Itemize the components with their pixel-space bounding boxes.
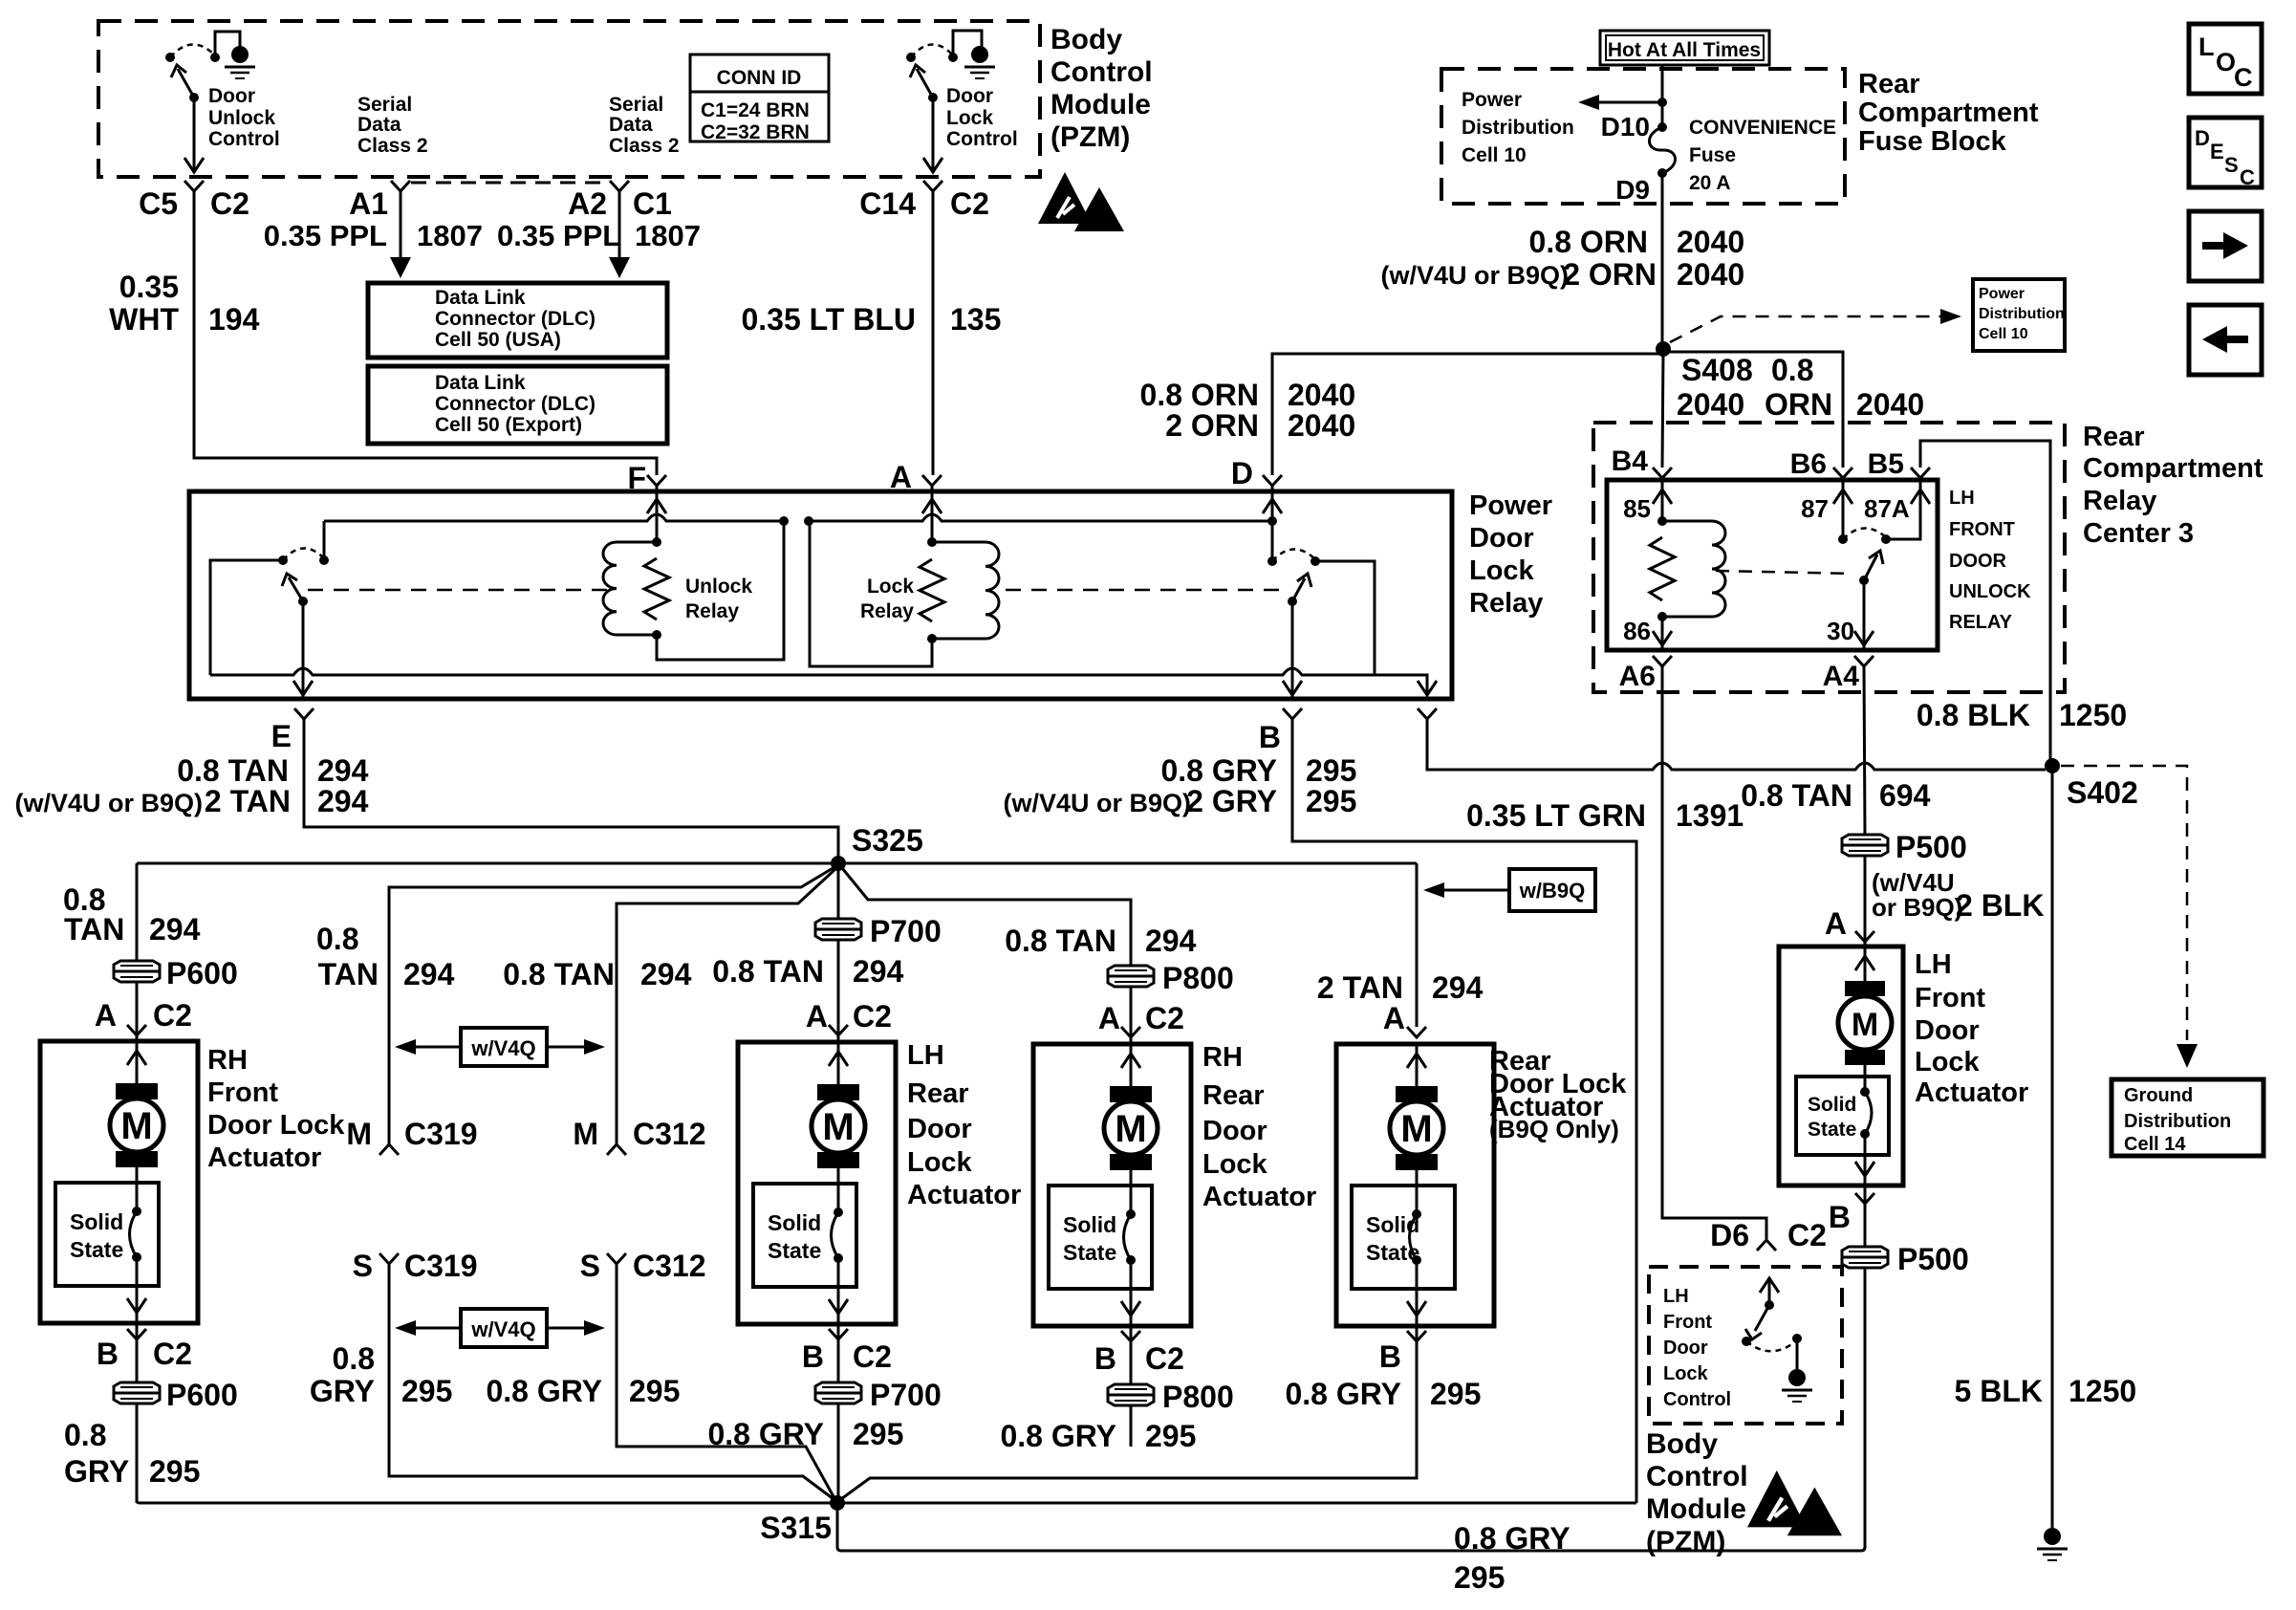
switch relay-right: [1267, 521, 1375, 675]
w/V4Q box (S): [395, 1309, 605, 1347]
LH Rear Door Lock Actuator: [738, 1042, 896, 1324]
svg-text:0.8 TAN: 0.8 TAN: [712, 954, 824, 989]
label 135: [950, 302, 1001, 337]
svg-text:P500: P500: [1895, 830, 1967, 864]
svg-text:2040: 2040: [1677, 257, 1744, 292]
svg-text:L: L: [2199, 33, 2215, 61]
LH Front Door Lock Actuator: [1779, 946, 1903, 1186]
wire fuse output to S408: [1661, 173, 1664, 349]
svg-text:0.8 GRY: 0.8 GRY: [707, 1417, 824, 1451]
svg-text:295: 295: [149, 1454, 200, 1489]
connector B (B9Q): [1379, 1331, 1426, 1374]
svg-text:Distribution: Distribution: [1462, 117, 1574, 139]
svg-text:A: A: [890, 460, 912, 494]
Rear Door Lock Actuator (B9Q): [1336, 1044, 1494, 1326]
wire D inside relay: [1263, 486, 1282, 521]
wire P800 to RH rear A: [1130, 988, 1133, 1044]
svg-text:TAN: TAN: [64, 912, 124, 946]
dashed actuation link (K1): [1716, 571, 1852, 574]
svg-text:E: E: [2210, 140, 2224, 163]
connector P700 (B side): [815, 1382, 861, 1403]
svg-text:0.8 TAN: 0.8 TAN: [177, 753, 289, 788]
svg-text:Door: Door: [907, 1114, 972, 1144]
svg-text:S: S: [353, 1249, 373, 1283]
svg-text:294: 294: [640, 957, 692, 991]
label 0.8 TAN 294 (P700): [712, 954, 903, 989]
svg-text:0.35 LT GRN: 0.35 LT GRN: [1466, 798, 1646, 833]
label 30: [1827, 617, 1854, 645]
svg-text:Door: Door: [1469, 523, 1534, 554]
label 0.8 GRY (RH front B): [64, 1418, 129, 1489]
Hot At All Times box: [1600, 31, 1769, 65]
splice S402: [2045, 758, 2060, 773]
wire B to S315: [1292, 719, 1636, 1503]
svg-text:B5: B5: [1868, 448, 1904, 480]
label 0.8 TAN 694: [1741, 778, 1930, 813]
dashed actuation link (lock): [1006, 589, 1285, 592]
label A2: [568, 186, 607, 221]
svg-text:0.8 GRY: 0.8 GRY: [1160, 753, 1277, 788]
label 5 BLK 1250: [1955, 1374, 2137, 1408]
svg-text:87A: 87A: [1864, 494, 1910, 523]
pin F connector: [647, 475, 666, 486]
wire C14 to A (0.35 LT BLU 135): [932, 191, 935, 475]
svg-text:295: 295: [853, 1417, 903, 1451]
label Body Control Module (PZM) top: [1051, 24, 1153, 153]
wire LH rear B to P700: [837, 1324, 840, 1382]
svg-text:Control: Control: [1051, 56, 1153, 88]
label Door Unlock Control: [208, 85, 280, 150]
unlock relay coil: [603, 537, 661, 640]
svg-text:A1: A1: [349, 186, 388, 221]
svg-text:M: M: [120, 1105, 152, 1147]
label 295 (S315 out): [1454, 1560, 1505, 1595]
svg-text:Hot At All Times: Hot At All Times: [1608, 39, 1761, 61]
svg-text:C5: C5: [139, 186, 178, 221]
svg-text:2040: 2040: [1288, 378, 1355, 412]
svg-text:Control: Control: [946, 128, 1018, 150]
label w/V4U 2 TAN 294 (E): [14, 784, 368, 818]
label D9: [1615, 175, 1650, 205]
svg-text:0.8 ORN: 0.8 ORN: [1529, 225, 1648, 259]
wire A inside relay: [922, 486, 942, 542]
svg-text:135: 135: [950, 302, 1001, 337]
svg-text:Class 2: Class 2: [357, 135, 428, 157]
svg-text:295: 295: [1306, 784, 1356, 818]
label 0.8 TAN (RH front): [63, 882, 124, 946]
svg-text:295: 295: [629, 1374, 680, 1408]
svg-text:2 TAN: 2 TAN: [1317, 970, 1403, 1005]
svg-text:Distribution: Distribution: [1979, 306, 2065, 322]
label 294 (RH front): [149, 912, 201, 946]
label D10: [1601, 112, 1650, 141]
label 1807 (A1): [417, 219, 483, 252]
wire E to S325: [304, 719, 838, 857]
splice S315: [830, 1495, 845, 1511]
svg-text:C312: C312: [633, 1117, 706, 1151]
wire relay common to S402: [1427, 719, 2046, 770]
svg-text:295: 295: [1454, 1560, 1505, 1595]
label Lock Relay: [860, 576, 914, 622]
label B (relay): [1259, 720, 1281, 754]
pin B4 connector: [1612, 446, 1672, 478]
svg-text:Body: Body: [1051, 24, 1122, 55]
label 2 TAN 294 (B9Q): [1317, 970, 1484, 1005]
svg-text:M: M: [1400, 1108, 1432, 1150]
label A1: [349, 186, 388, 221]
legend DESC box: [2189, 118, 2262, 189]
svg-text:Door: Door: [1663, 1338, 1708, 1359]
svg-text:C2: C2: [1787, 1218, 1827, 1252]
arrow to power distribution (left): [1578, 95, 1662, 110]
label LH Front Door Lock Actuator: [1915, 949, 2028, 1108]
connector C14/C2 pin: [923, 181, 942, 191]
svg-text:Serial: Serial: [609, 94, 663, 116]
label Door Lock Control: [946, 85, 1018, 150]
svg-text:Solid: Solid: [1063, 1212, 1116, 1237]
svg-text:WHT: WHT: [109, 302, 179, 337]
svg-text:C312: C312: [633, 1249, 706, 1283]
svg-text:Door Lock: Door Lock: [207, 1110, 345, 1141]
svg-text:DOOR: DOOR: [1949, 551, 2007, 572]
wire P700 to LH rear A: [837, 941, 840, 1041]
svg-text:P500: P500: [1897, 1242, 1969, 1276]
svg-text:A: A: [1098, 1001, 1120, 1035]
wire RH front B to P600: [136, 1323, 139, 1382]
wire relay internal top (right segment): [809, 514, 1272, 521]
svg-text:S402: S402: [2067, 775, 2138, 810]
svg-text:Cell 10: Cell 10: [1979, 326, 2028, 342]
svg-text:C2: C2: [853, 999, 892, 1033]
label C2 (BCM): [210, 186, 249, 221]
label 0.8 GRY 295 (LH rear B): [707, 1417, 903, 1451]
label 0.8 TAN 294 (E): [177, 753, 368, 788]
svg-text:294: 294: [853, 954, 904, 989]
wire LH front B to P500: [1864, 1186, 1867, 1249]
connector A (LH front): [1825, 906, 1874, 942]
svg-text:A: A: [95, 998, 117, 1033]
svg-text:RH: RH: [1202, 1042, 1243, 1073]
relay K1 coil (85-86): [1650, 478, 1725, 650]
wire S402 to ground (5 BLK 1250): [2051, 770, 2054, 1528]
wire P800 B to S315: [1130, 1406, 1133, 1447]
svg-text:C2: C2: [210, 186, 249, 221]
connector B C2 (LH rear): [802, 1329, 892, 1374]
svg-text:FRONT: FRONT: [1949, 519, 2015, 540]
svg-text:State: State: [70, 1237, 123, 1262]
Rear Compartment Fuse Block dashed box: [1441, 69, 1845, 204]
connector A1 pin: [391, 181, 410, 191]
LH Front Door Unlock Relay box: [1607, 480, 1938, 650]
connector S C319: [353, 1249, 478, 1283]
svg-text:B: B: [97, 1337, 119, 1371]
svg-text:30: 30: [1827, 617, 1854, 645]
svg-text:2 BLK: 2 BLK: [1956, 888, 2044, 923]
svg-text:P600: P600: [166, 956, 238, 990]
label C1: [633, 186, 672, 221]
svg-text:C319: C319: [404, 1249, 478, 1283]
wire S315 to LH front B: [837, 1264, 1865, 1551]
svg-text:S408: S408: [1681, 353, 1753, 387]
connector P500 (A side): [1842, 835, 1888, 856]
label 0.8 GRY 295 (B9Q B): [1285, 1377, 1481, 1411]
label Unlock Relay: [685, 576, 752, 622]
svg-text:CONN ID: CONN ID: [717, 67, 802, 89]
svg-text:F: F: [627, 461, 646, 495]
svg-text:GRY: GRY: [310, 1374, 375, 1408]
svg-text:C1=24 BRN: C1=24 BRN: [701, 99, 810, 121]
svg-text:C14: C14: [859, 186, 916, 221]
svg-text:C2=32 BRN: C2=32 BRN: [701, 121, 810, 143]
svg-text:Compartment: Compartment: [1858, 98, 2039, 128]
svg-text:Relay: Relay: [2083, 486, 2156, 516]
svg-text:B: B: [1829, 1200, 1851, 1234]
connector A C2 (LH rear): [806, 999, 892, 1035]
svg-text:CONVENIENCE: CONVENIENCE: [1689, 117, 1836, 139]
wire S325 to RH rear: [842, 868, 1131, 966]
label w/V4U 2 ORN 2040: [1380, 257, 1744, 292]
label w/V4U 2 GRY 295 (B): [1003, 784, 1356, 818]
Rear Compartment Relay Center dashed box: [1593, 423, 2065, 692]
svg-text:UNLOCK: UNLOCK: [1949, 581, 2031, 602]
svg-text:0.35 PPL: 0.35 PPL: [497, 219, 620, 252]
label 2040 ORN 2040: [1677, 387, 1924, 422]
svg-text:Door: Door: [208, 85, 255, 107]
svg-text:GRY: GRY: [64, 1454, 129, 1489]
svg-text:0.8 ORN: 0.8 ORN: [1140, 378, 1259, 412]
wire S325 to B9Q actuator A: [1416, 863, 1419, 1027]
pin B6 connector: [1790, 448, 1852, 480]
svg-text:0.8 GRY: 0.8 GRY: [1285, 1377, 1401, 1411]
label P500 (A): [1895, 830, 1967, 864]
svg-text:M: M: [1852, 1007, 1878, 1043]
ground G (bottom right): [2037, 1528, 2068, 1560]
dashed reference to Power Distribution Cell 10: [1670, 309, 1961, 342]
svg-text:Rear: Rear: [907, 1078, 969, 1109]
label Body Control Module (PZM) bottom: [1646, 1428, 1748, 1557]
label P500 (B): [1897, 1242, 1969, 1276]
svg-text:B: B: [1259, 720, 1281, 754]
svg-text:Power: Power: [1469, 490, 1552, 521]
wire lock relay return loop: [810, 521, 932, 666]
svg-text:LH: LH: [907, 1040, 944, 1071]
svg-text:Lock: Lock: [1202, 1149, 1268, 1180]
svg-text:Relay: Relay: [685, 600, 739, 622]
svg-text:Cell 14: Cell 14: [2124, 1134, 2186, 1155]
svg-text:Distribution: Distribution: [2124, 1111, 2231, 1132]
svg-text:1807: 1807: [635, 219, 701, 252]
svg-text:0.8 TAN: 0.8 TAN: [503, 957, 615, 991]
wire unlock relay return loop: [657, 521, 784, 660]
svg-text:Rear: Rear: [1858, 69, 1920, 99]
svg-text:Solid: Solid: [70, 1209, 123, 1234]
wire F inside relay: [647, 486, 666, 542]
label 0.8 ORN 2040 (fuse out): [1529, 225, 1745, 259]
svg-text:LH: LH: [1915, 949, 1952, 980]
svg-text:Lock: Lock: [946, 107, 993, 129]
ESD symbol (BCM top): [1038, 172, 1124, 231]
wire S408 to B6: [1663, 352, 1843, 468]
wire hot feed: [1661, 65, 1664, 127]
svg-text:B: B: [1094, 1341, 1116, 1376]
wire S325 to P700: [837, 863, 840, 918]
svg-text:Cell 50 (Export): Cell 50 (Export): [435, 414, 582, 436]
label 0.8 GRY 295 (RH rear B): [1000, 1419, 1196, 1453]
svg-text:w/B9Q: w/B9Q: [1519, 879, 1585, 903]
svg-text:Control: Control: [1646, 1461, 1748, 1492]
svg-text:Actuator: Actuator: [1915, 1077, 2028, 1108]
svg-text:A: A: [1825, 906, 1847, 941]
svg-text:Actuator: Actuator: [1202, 1182, 1316, 1212]
wire A1 serial data arrow: [390, 191, 411, 278]
w/B9Q box: [1423, 869, 1595, 911]
svg-text:State: State: [768, 1238, 821, 1263]
svg-text:P800: P800: [1162, 1380, 1234, 1414]
wire P700 B to S315: [837, 1404, 840, 1503]
svg-text:2040: 2040: [1288, 408, 1355, 443]
splice S408: [1656, 341, 1671, 357]
svg-text:86: 86: [1623, 617, 1651, 645]
svg-text:S: S: [580, 1249, 600, 1283]
svg-text:Rear: Rear: [2083, 422, 2145, 452]
connector A (B9Q): [1383, 1001, 1426, 1037]
svg-text:Unlock: Unlock: [685, 576, 752, 598]
svg-text:LH: LH: [1949, 488, 1975, 509]
Ground Distribution Cell 14 box: [2112, 1079, 2264, 1156]
label 1807 (A2): [635, 219, 701, 252]
svg-text:Fuse Block: Fuse Block: [1858, 126, 2007, 157]
svg-text:Door: Door: [1202, 1116, 1267, 1146]
svg-text:C2: C2: [153, 998, 192, 1033]
connector S C312: [580, 1249, 706, 1283]
label 0.35 LT GRN 1391: [1466, 798, 1744, 833]
svg-text:295: 295: [1430, 1377, 1481, 1411]
label 194: [208, 302, 260, 337]
svg-text:D9: D9: [1615, 175, 1650, 205]
wire B9Q B to S315: [841, 1326, 1417, 1499]
svg-text:w/V4Q: w/V4Q: [470, 1317, 535, 1341]
label 0.8 TAN 294 (RH rear): [1005, 924, 1196, 958]
svg-text:P800: P800: [1162, 961, 1234, 995]
label LH Rear Door Lock Actuator: [907, 1040, 1021, 1210]
legend LOC box: [2189, 24, 2262, 94]
svg-text:Serial: Serial: [357, 94, 412, 116]
svg-text:85: 85: [1623, 494, 1651, 523]
svg-text:Control: Control: [208, 128, 280, 150]
label S402: [2067, 775, 2138, 810]
svg-text:2 TAN: 2 TAN: [205, 784, 291, 818]
label 0.35 PPL (A1): [264, 219, 387, 252]
label 0.8 TAN 294 (C312 M): [503, 957, 691, 991]
label A (relay): [890, 460, 912, 494]
switch relay-left: [210, 521, 329, 675]
relay K1 switch (30/87/87A): [1833, 478, 1930, 650]
wire A6 to D6 (0.35 LT GRN 1391): [1662, 666, 1766, 1239]
ESD symbol (BCM bottom): [1747, 1470, 1842, 1535]
pin A6 connector: [1619, 656, 1672, 692]
label 85: [1623, 494, 1651, 523]
svg-text:LH: LH: [1663, 1286, 1689, 1307]
connector C5/C2 pin: [184, 181, 204, 191]
svg-text:0.8 TAN: 0.8 TAN: [1005, 924, 1116, 958]
Body Control Module (PZM) dashed box (top): [98, 21, 1040, 177]
wire S325 to RH front A: [136, 863, 139, 961]
label 295 (RH front B): [149, 1454, 200, 1489]
connector A2/C1 pin: [610, 181, 629, 191]
svg-text:Data: Data: [357, 114, 401, 136]
wire relay internal bottom: [210, 668, 1437, 695]
svg-text:5 BLK: 5 BLK: [1955, 1374, 2043, 1408]
label Power Door Lock Relay: [1469, 490, 1552, 619]
connector A C2 (RH front): [95, 998, 192, 1035]
node D coil feed: [1267, 516, 1277, 526]
svg-text:P700: P700: [870, 914, 942, 948]
svg-text:0.35 LT BLU: 0.35 LT BLU: [741, 302, 916, 337]
svg-text:294: 294: [403, 957, 455, 991]
CONN ID table: [690, 54, 829, 143]
svg-text:0.8 BLK: 0.8 BLK: [1917, 698, 2030, 732]
svg-text:Lock: Lock: [1915, 1047, 1981, 1077]
label D (relay): [1231, 456, 1253, 490]
svg-text:Connector (DLC): Connector (DLC): [435, 393, 596, 415]
wire S325 bus: [137, 862, 1417, 865]
label 87: [1801, 494, 1829, 523]
svg-text:2 ORN: 2 ORN: [1165, 408, 1259, 443]
svg-text:or B9Q): or B9Q): [1872, 893, 1962, 922]
ground (Door Unlock Control): [225, 46, 255, 78]
svg-text:87: 87: [1801, 494, 1829, 523]
svg-text:A: A: [1383, 1001, 1405, 1035]
svg-text:Data: Data: [609, 114, 653, 136]
connector P700 (A side): [815, 919, 861, 940]
wire S315 bus: [137, 1500, 1636, 1503]
svg-text:M: M: [573, 1117, 598, 1151]
svg-text:O: O: [2216, 48, 2236, 76]
connector B C2 (RH rear): [1094, 1331, 1184, 1376]
dashed reference to Ground Distribution: [2061, 766, 2198, 1068]
svg-text:(PZM): (PZM): [1051, 121, 1130, 153]
svg-text:Rear: Rear: [1202, 1080, 1265, 1111]
svg-text:A: A: [806, 999, 828, 1033]
label P600 (A): [166, 956, 238, 990]
svg-text:C2: C2: [153, 1337, 192, 1371]
label CONVENIENCE Fuse 20 A: [1689, 117, 1836, 194]
label P700 (A): [870, 914, 942, 948]
label RH Rear Door Lock Actuator: [1202, 1042, 1316, 1212]
wire relay-right switch to B: [1283, 601, 1302, 697]
svg-text:294: 294: [149, 912, 201, 946]
wire A4 to P500: [1864, 666, 1865, 835]
label C5: [139, 186, 178, 221]
switch SW3 LH front door lock control: [1742, 1278, 1802, 1369]
wire A2 serial data arrow: [609, 191, 630, 278]
connector P500 (B side): [1842, 1247, 1888, 1268]
svg-text:S325: S325: [852, 823, 923, 858]
svg-text:S315: S315: [760, 1511, 832, 1545]
label 87A: [1864, 494, 1910, 523]
wire P600 B to S315: [136, 1404, 139, 1503]
svg-text:B4: B4: [1612, 446, 1649, 477]
svg-text:Lock: Lock: [1469, 555, 1535, 586]
LH Front Door Lock Control dashed box: [1649, 1267, 1842, 1424]
svg-text:A4: A4: [1823, 661, 1860, 692]
svg-text:(w/V4U or B9Q): (w/V4U or B9Q): [14, 789, 203, 817]
label 0.8 ORN 2040 (D): [1140, 378, 1356, 412]
pin D connector: [1263, 475, 1282, 486]
svg-text:A2: A2: [568, 186, 607, 221]
label C2 (door lock): [950, 186, 989, 221]
node top-right junction: [804, 516, 813, 526]
